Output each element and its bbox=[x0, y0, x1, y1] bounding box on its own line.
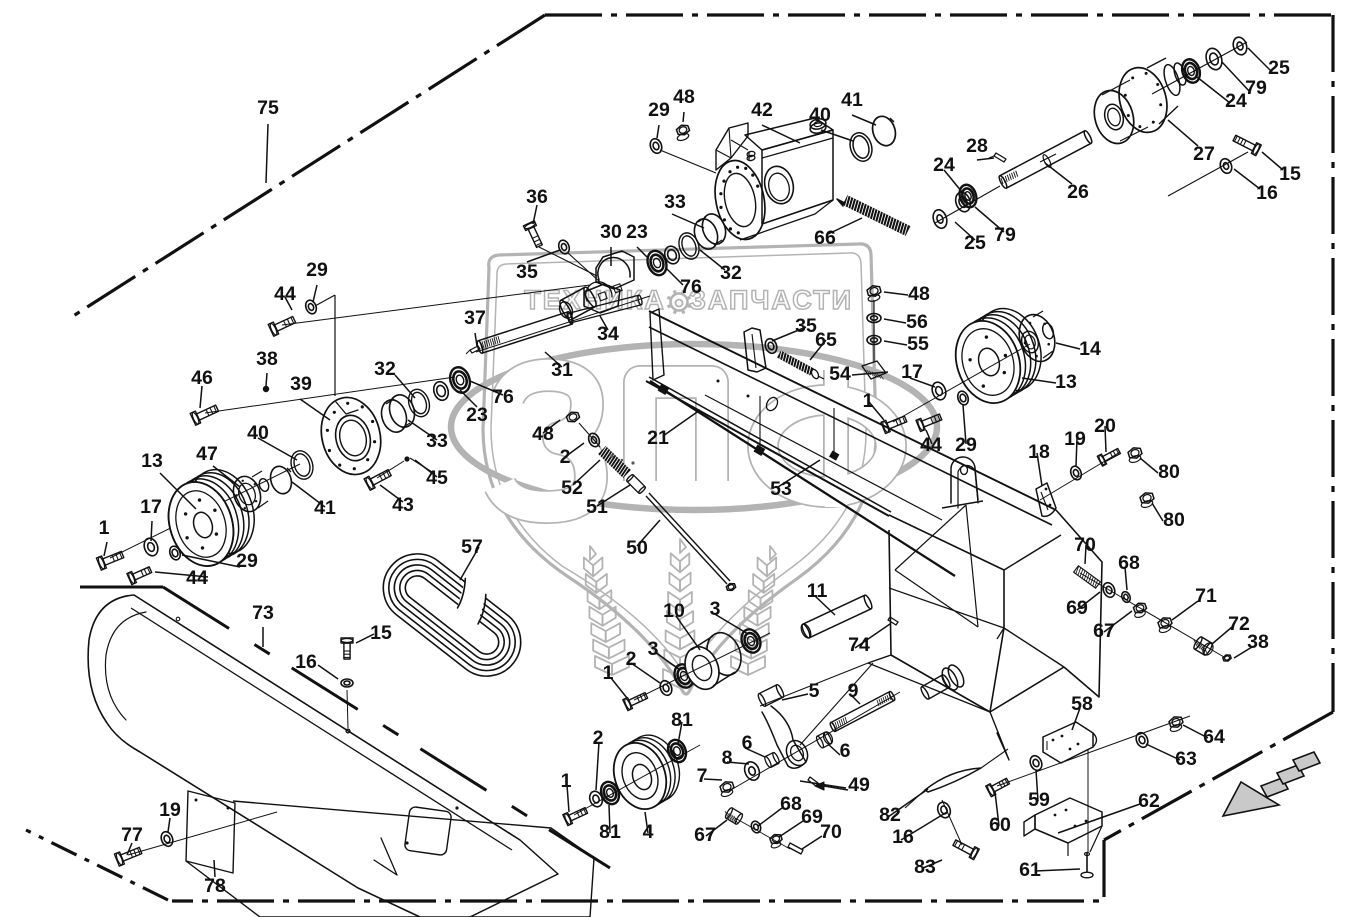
svg-text:70: 70 bbox=[1074, 534, 1096, 556]
svg-text:29: 29 bbox=[236, 550, 258, 572]
pin 49 bbox=[808, 777, 818, 786]
svg-text:61: 61 bbox=[1019, 859, 1041, 881]
svg-text:40: 40 bbox=[809, 104, 831, 126]
cover 73 bbox=[88, 595, 558, 917]
svg-text:76: 76 bbox=[492, 386, 514, 408]
svg-text:67: 67 bbox=[1093, 620, 1115, 642]
washer 2 idler bbox=[658, 679, 674, 697]
svg-text:7: 7 bbox=[697, 765, 708, 787]
svg-text:1: 1 bbox=[603, 662, 614, 684]
axis 59-64 bbox=[997, 716, 1190, 786]
seal 79 lower bbox=[953, 190, 972, 213]
spring 52 assy bbox=[566, 412, 735, 590]
washer 8 bbox=[742, 760, 762, 783]
washer 29 right bbox=[956, 390, 970, 407]
bolt 46 bbox=[190, 405, 218, 425]
washer 23 left bbox=[431, 380, 450, 402]
pulley 10 bbox=[679, 628, 747, 695]
svg-text:65: 65 bbox=[815, 329, 837, 351]
axis pulley13 bbox=[110, 464, 300, 558]
bolt 1 idler bbox=[623, 693, 648, 711]
plug 72 bbox=[1193, 636, 1216, 657]
svg-text:2: 2 bbox=[626, 648, 637, 670]
svg-text:16: 16 bbox=[295, 651, 317, 673]
leader 15-16 axis bbox=[1168, 152, 1248, 196]
svg-text:17: 17 bbox=[140, 496, 162, 518]
svg-text:73: 73 bbox=[252, 602, 274, 624]
shaft 11 bbox=[799, 594, 873, 639]
svg-text:44: 44 bbox=[186, 567, 208, 589]
washer 29 upper-left bbox=[304, 299, 319, 316]
snap ring 32 left bbox=[405, 387, 433, 420]
axis 70-38 bbox=[1080, 573, 1224, 657]
svg-text:35: 35 bbox=[795, 315, 817, 337]
washer 2 p4 bbox=[587, 789, 604, 808]
svg-text:38: 38 bbox=[1247, 631, 1269, 653]
svg-text:46: 46 bbox=[191, 367, 213, 389]
svg-text:42: 42 bbox=[751, 99, 773, 121]
svg-text:18: 18 bbox=[1028, 441, 1050, 463]
svg-text:1: 1 bbox=[99, 517, 110, 539]
pin 37 bbox=[466, 346, 480, 354]
bracket 58 bbox=[1043, 722, 1097, 763]
bolt 15 mid bbox=[341, 638, 353, 659]
svg-text:6: 6 bbox=[742, 732, 753, 754]
rod 65 bbox=[777, 351, 824, 380]
svg-text:49: 49 bbox=[848, 774, 870, 796]
svg-text:56: 56 bbox=[906, 311, 928, 333]
bearing 3b bbox=[738, 627, 764, 656]
svg-text:76: 76 bbox=[680, 276, 702, 298]
bolt 15 topright bbox=[1233, 135, 1261, 156]
nut 38 right bbox=[1223, 655, 1231, 661]
svg-text:2: 2 bbox=[593, 727, 604, 749]
spring 66 bbox=[837, 195, 910, 236]
leader 45 bbox=[410, 458, 432, 472]
pin 38 dot bbox=[263, 386, 269, 392]
leader lines bbox=[104, 48, 1283, 877]
clevis bracket on beam bbox=[942, 457, 983, 508]
bolt 1 p4 bbox=[563, 808, 588, 826]
panel under cover bbox=[186, 801, 594, 917]
bolt 60 bbox=[986, 778, 1010, 796]
washer 29 left bbox=[168, 545, 182, 562]
svg-text:5: 5 bbox=[809, 680, 820, 702]
svg-text:75: 75 bbox=[257, 97, 279, 119]
svg-text:48: 48 bbox=[673, 86, 695, 108]
axis 77-78 bbox=[128, 812, 277, 855]
axis 82 bbox=[942, 800, 962, 845]
svg-text:32: 32 bbox=[374, 358, 396, 380]
wire to housing bbox=[660, 150, 716, 173]
o-ring 40 bbox=[847, 130, 876, 164]
bolt 20 bbox=[1097, 449, 1120, 467]
svg-text:31: 31 bbox=[551, 359, 573, 381]
svg-text:82: 82 bbox=[879, 804, 901, 826]
pulley 13 left bbox=[158, 461, 264, 574]
washer 25 upper bbox=[1231, 35, 1249, 56]
pillow block 30/34 bbox=[557, 251, 634, 321]
svg-text:52: 52 bbox=[561, 477, 583, 499]
svg-text:41: 41 bbox=[314, 497, 336, 519]
svg-text:59: 59 bbox=[1028, 789, 1050, 811]
svg-text:13: 13 bbox=[141, 450, 163, 472]
snap ring 32 mid bbox=[675, 230, 702, 262]
bearing 76 left bbox=[447, 365, 473, 396]
frame border phantom line bottom-left diagonal bbox=[26, 830, 168, 900]
svg-text:44: 44 bbox=[274, 283, 296, 305]
bolt 44 left bbox=[127, 567, 152, 585]
bolt 44 right bbox=[916, 414, 942, 432]
nut 67 right bbox=[1133, 603, 1146, 618]
pin 70 bottom bbox=[788, 843, 803, 854]
washer 35 right bbox=[763, 337, 778, 355]
pulley 4 bbox=[605, 728, 688, 817]
svg-text:68: 68 bbox=[780, 793, 802, 815]
svg-text:17: 17 bbox=[901, 361, 923, 383]
svg-text:67: 67 bbox=[694, 824, 716, 846]
svg-text:77: 77 bbox=[121, 824, 143, 846]
svg-text:63: 63 bbox=[1175, 748, 1197, 770]
svg-text:15: 15 bbox=[1279, 163, 1301, 185]
bolt 61 bbox=[1081, 852, 1093, 878]
svg-text:51: 51 bbox=[586, 496, 608, 518]
svg-text:68: 68 bbox=[1118, 552, 1140, 574]
blade 82 bbox=[905, 749, 1008, 808]
plate 54 bbox=[862, 361, 886, 379]
svg-text:41: 41 bbox=[841, 89, 863, 111]
washer 63 bbox=[1134, 731, 1150, 749]
washer 56 bbox=[867, 314, 881, 323]
svg-text:1: 1 bbox=[561, 770, 572, 792]
svg-text:35: 35 bbox=[516, 261, 538, 283]
washer 19 left bbox=[159, 830, 175, 848]
bearing housing 39 bbox=[313, 391, 388, 481]
pin 28 bbox=[989, 153, 1006, 162]
washer 29 top bbox=[648, 137, 663, 155]
arm 5 bbox=[757, 684, 812, 769]
svg-text:57: 57 bbox=[461, 536, 483, 558]
frame box right section bbox=[868, 510, 1102, 760]
shaft stub bbox=[920, 663, 967, 701]
svg-text:71: 71 bbox=[1195, 585, 1217, 607]
plug 67 bottom bbox=[724, 807, 743, 825]
frame beam 21 bbox=[646, 309, 1056, 525]
svg-text:32: 32 bbox=[720, 262, 742, 284]
leader 44-29 axis bbox=[282, 285, 590, 396]
axis arm bbox=[729, 692, 900, 791]
bolt 1 left bbox=[96, 551, 123, 570]
hub 27 bbox=[1088, 58, 1188, 148]
svg-text:80: 80 bbox=[1163, 509, 1185, 531]
nut 80 b bbox=[1140, 493, 1154, 509]
brace wires bbox=[705, 395, 1004, 745]
axis pulley13r bbox=[893, 344, 1030, 422]
svg-text:30: 30 bbox=[600, 221, 622, 243]
pin 74 bbox=[888, 617, 898, 625]
svg-text:13: 13 bbox=[1055, 371, 1077, 393]
svg-text:62: 62 bbox=[1138, 790, 1160, 812]
svg-text:38: 38 bbox=[256, 348, 278, 370]
svg-text:25: 25 bbox=[1268, 57, 1290, 79]
svg-text:3: 3 bbox=[648, 638, 659, 660]
plate 78 bbox=[186, 791, 235, 873]
svg-text:15: 15 bbox=[370, 622, 392, 644]
svg-text:23: 23 bbox=[626, 221, 648, 243]
washer 17 left bbox=[142, 536, 160, 557]
svg-text:9: 9 bbox=[848, 680, 859, 702]
svg-text:21: 21 bbox=[647, 427, 669, 449]
nut 80 a bbox=[1128, 448, 1142, 464]
strip 73 heavy dashed line bbox=[80, 587, 610, 868]
seal 79 upper bbox=[1203, 46, 1224, 72]
bracket 35/65 on beam bbox=[744, 328, 766, 372]
washer 16 bottom bbox=[935, 800, 952, 819]
svg-text:37: 37 bbox=[464, 307, 486, 329]
svg-text:45: 45 bbox=[426, 467, 448, 489]
direction arrow bbox=[1223, 752, 1320, 816]
svg-text:8: 8 bbox=[722, 747, 733, 769]
tie rod 53 bbox=[650, 381, 955, 576]
svg-text:19: 19 bbox=[159, 799, 181, 821]
svg-text:6: 6 bbox=[840, 740, 851, 762]
svg-text:4: 4 bbox=[643, 821, 654, 843]
belt 57 bbox=[370, 540, 535, 690]
nut 48 right bbox=[867, 286, 881, 303]
svg-text:70: 70 bbox=[820, 821, 842, 843]
svg-text:16: 16 bbox=[1256, 182, 1278, 204]
watermark shield logo bbox=[451, 244, 937, 694]
axis p4 bbox=[574, 745, 700, 815]
svg-text:53: 53 bbox=[770, 478, 792, 500]
svg-text:11: 11 bbox=[807, 580, 828, 602]
svg-text:24: 24 bbox=[1225, 90, 1247, 112]
stud 70 right bbox=[1074, 566, 1101, 588]
svg-text:34: 34 bbox=[597, 323, 619, 345]
svg-text:36: 36 bbox=[526, 186, 548, 208]
axis line 25-79 bbox=[935, 186, 1000, 223]
washer 69 right bbox=[1101, 581, 1117, 599]
svg-text:29: 29 bbox=[648, 99, 670, 121]
svg-text:26: 26 bbox=[1067, 181, 1089, 203]
leader 36-35 bbox=[539, 247, 600, 282]
bushing 33 mid bbox=[690, 211, 729, 253]
axis line hub bbox=[1152, 42, 1247, 94]
washer 17 right bbox=[930, 380, 948, 401]
svg-text:3: 3 bbox=[710, 598, 721, 620]
snap ring 41 bbox=[869, 113, 899, 148]
washer 35 left bbox=[557, 239, 571, 256]
svg-text:19: 19 bbox=[1064, 428, 1086, 450]
bolt 83 bbox=[953, 840, 979, 860]
svg-text:81: 81 bbox=[599, 821, 621, 843]
svg-text:33: 33 bbox=[664, 191, 686, 213]
svg-text:48: 48 bbox=[532, 423, 554, 445]
svg-text:69: 69 bbox=[1066, 597, 1088, 619]
bearing 24 upper bbox=[1179, 57, 1203, 85]
washer 16 mid bbox=[341, 679, 353, 687]
hub 14 bbox=[1013, 310, 1060, 366]
pin 45 bbox=[377, 456, 410, 478]
svg-text:40: 40 bbox=[247, 422, 269, 444]
shaft 31 bbox=[476, 295, 643, 354]
rod 9 bbox=[829, 691, 895, 732]
svg-text:29: 29 bbox=[306, 259, 328, 281]
axis line block bbox=[476, 296, 650, 352]
snap ring 41 left bbox=[267, 464, 295, 497]
bearing 81a bbox=[598, 779, 622, 807]
frame border phantom line top-left diagonal bbox=[70, 15, 545, 318]
vertical drop 58-62 bbox=[1087, 749, 1089, 852]
svg-text:64: 64 bbox=[1203, 726, 1225, 748]
svg-text:2: 2 bbox=[560, 446, 571, 468]
svg-text:39: 39 bbox=[290, 373, 312, 395]
svg-text:50: 50 bbox=[626, 537, 648, 559]
svg-text:83: 83 bbox=[914, 856, 936, 878]
frame border phantom line bottom-right diagonal bbox=[1104, 712, 1333, 840]
bolt 44 upper-left bbox=[268, 317, 295, 337]
washer 16 topright bbox=[1218, 157, 1233, 175]
svg-text:27: 27 bbox=[1193, 143, 1215, 165]
svg-text:54: 54 bbox=[829, 363, 851, 385]
svg-text:10: 10 bbox=[663, 600, 685, 622]
bolt 77 bbox=[114, 847, 141, 866]
svg-text:55: 55 bbox=[907, 333, 929, 355]
axis 18-20 bbox=[1040, 452, 1120, 500]
spacer 6a bbox=[764, 752, 781, 768]
bearing 76 mid bbox=[644, 248, 669, 278]
o-ring 40 left bbox=[288, 448, 317, 482]
svg-text:1: 1 bbox=[863, 390, 874, 412]
dust specks bbox=[610, 454, 634, 464]
svg-text:25: 25 bbox=[964, 232, 986, 254]
bolt 36 bbox=[523, 221, 542, 248]
svg-text:14: 14 bbox=[1079, 338, 1101, 360]
svg-text:58: 58 bbox=[1071, 693, 1093, 715]
svg-text:20: 20 bbox=[1094, 415, 1116, 437]
washer 59 bbox=[1028, 754, 1044, 772]
washer 68 right bbox=[1120, 590, 1132, 603]
frame border phantom line bottom bbox=[172, 840, 1104, 901]
svg-text:74: 74 bbox=[848, 634, 870, 656]
svg-text:ЗАПЧАСТИ: ЗАПЧАСТИ bbox=[689, 285, 853, 315]
nut 71 bbox=[1158, 618, 1172, 634]
hub 47 bbox=[229, 471, 270, 515]
svg-text:16: 16 bbox=[892, 826, 914, 848]
shaft 26 bbox=[998, 130, 1093, 189]
bolt 43 bbox=[364, 470, 391, 491]
axis idler bbox=[634, 633, 770, 700]
svg-text:44: 44 bbox=[920, 434, 942, 456]
bushing 6b bbox=[815, 730, 834, 748]
washer 19 right bbox=[1069, 465, 1084, 482]
svg-text:78: 78 bbox=[204, 875, 226, 897]
bearing 24 lower bbox=[957, 183, 979, 210]
svg-text:48: 48 bbox=[908, 283, 930, 305]
svg-text:47: 47 bbox=[196, 443, 218, 465]
pulley 13 right bbox=[946, 300, 1052, 411]
drop 15 bbox=[346, 690, 350, 733]
svg-text:29: 29 bbox=[955, 434, 977, 456]
svg-text:79: 79 bbox=[994, 224, 1016, 246]
svg-text:28: 28 bbox=[966, 135, 988, 157]
svg-text:60: 60 bbox=[989, 814, 1011, 836]
washer 68 bottom bbox=[750, 820, 763, 834]
washer 25 lower bbox=[931, 208, 949, 230]
drop line 48-54 bbox=[873, 300, 875, 362]
svg-text:33: 33 bbox=[426, 430, 448, 452]
svg-text:23: 23 bbox=[466, 404, 488, 426]
frame border phantom line right bbox=[1331, 15, 1334, 712]
arrow leader 49 bbox=[815, 782, 848, 790]
svg-text:43: 43 bbox=[392, 494, 414, 516]
washer 55 bbox=[867, 336, 881, 345]
nut 64 bbox=[1169, 717, 1183, 733]
nut 69 bottom bbox=[770, 835, 782, 849]
svg-text:80: 80 bbox=[1158, 461, 1180, 483]
svg-text:79: 79 bbox=[1245, 77, 1267, 99]
washer 23a bbox=[662, 244, 681, 266]
nut 48 top bbox=[676, 125, 689, 142]
bracket 62 bbox=[1024, 798, 1102, 856]
bracket 18 bbox=[1036, 483, 1056, 516]
bushing 33 left bbox=[377, 392, 418, 436]
svg-text:24: 24 bbox=[933, 154, 955, 176]
svg-text:81: 81 bbox=[671, 709, 693, 731]
svg-text:66: 66 bbox=[814, 227, 836, 249]
bearing housing 42 bbox=[708, 117, 833, 244]
axis 67-70 bbox=[735, 818, 790, 849]
axis 46 bbox=[205, 377, 455, 413]
frame border phantom line top bbox=[545, 13, 1333, 16]
bearing 3a bbox=[671, 662, 697, 691]
bolt 1 right bbox=[881, 416, 907, 434]
bearing 81b bbox=[665, 737, 689, 765]
nut 7 bbox=[720, 782, 734, 798]
